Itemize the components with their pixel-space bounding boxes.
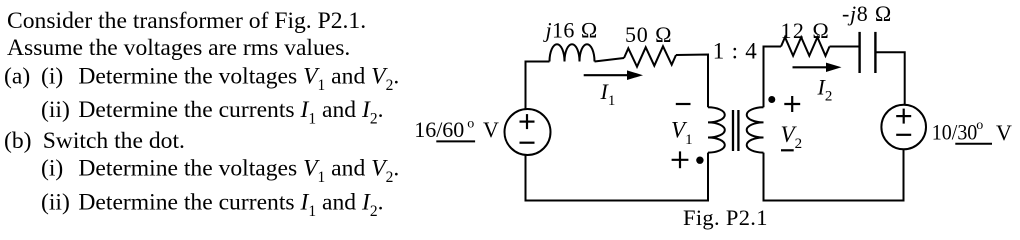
svg-text:-j8 Ω: -j8 Ω <box>842 1 892 26</box>
voltage source right 10/30 <box>881 105 926 150</box>
svg-text:j16 Ω: j16 Ω <box>543 18 598 43</box>
svg-text:(i): (i) <box>41 156 63 182</box>
arrow I2 <box>793 63 842 72</box>
svg-text:(ii): (ii) <box>41 97 70 123</box>
svg-text:V: V <box>996 120 1012 145</box>
svg-text:Consider the transformer of Fi: Consider the transformer of Fig. P2.1. <box>7 8 366 34</box>
wire secondary top to resistor 12 <box>764 47 782 108</box>
svg-text:50 Ω: 50 Ω <box>625 22 672 47</box>
label 10/30 V <box>932 118 1012 145</box>
capacitor -j8 ohm <box>860 32 876 73</box>
dot secondary top <box>768 96 775 103</box>
problem statement text line 7 <box>41 189 383 220</box>
label plus above V2 <box>784 96 800 112</box>
inductor j16 ohm <box>550 44 595 61</box>
problem statement text line 4 <box>41 97 383 128</box>
label minus below V2 <box>781 149 794 151</box>
wire left loop bottom <box>526 153 709 201</box>
svg-text:Determine the currents I1 and: Determine the currents I1 and I2. <box>78 189 383 220</box>
svg-text:Fig. P2.1: Fig. P2.1 <box>683 205 768 230</box>
svg-text:(i): (i) <box>41 64 63 90</box>
svg-text:(ii): (ii) <box>41 189 70 215</box>
svg-text:Determine the voltages V1 and: Determine the voltages V1 and V2. <box>78 64 399 95</box>
svg-text:V: V <box>483 117 499 142</box>
wire capacitor to right source <box>875 52 904 105</box>
wire inductor to resistor 50 <box>595 58 625 62</box>
svg-text:(b): (b) <box>4 128 32 154</box>
resistor 12 ohm <box>781 37 830 56</box>
svg-text:10/30: 10/30 <box>932 120 978 145</box>
problem statement text line 3 <box>4 64 399 95</box>
voltage source left 16/60 <box>505 109 551 155</box>
label minus above V1 <box>676 103 691 105</box>
wire resistor 50 to transformer primary <box>676 55 708 108</box>
resistor 50 ohm <box>624 46 676 66</box>
svg-text:1 : 4: 1 : 4 <box>713 38 758 63</box>
problem statement text line 5 <box>4 128 185 154</box>
svg-text:o: o <box>467 117 474 132</box>
wire top-left corner to inductor <box>526 62 550 110</box>
label plus below V1 <box>672 151 689 168</box>
svg-text:Determine the voltages V1 and: Determine the voltages V1 and V2. <box>78 156 399 187</box>
svg-text:o: o <box>976 118 983 133</box>
label 16/60 V <box>414 117 499 143</box>
problem statement text line 6 <box>41 156 399 187</box>
svg-text:12 Ω: 12 Ω <box>781 18 830 43</box>
svg-text:Determine the currents I1 and: Determine the currents I1 and I2. <box>78 97 383 128</box>
transformer core <box>733 110 738 151</box>
svg-text:Switch the dot.: Switch the dot. <box>43 128 185 154</box>
dot primary bottom <box>696 157 703 164</box>
svg-text:16/60: 16/60 <box>414 117 464 142</box>
transformer secondary winding <box>747 107 764 152</box>
transformer primary winding <box>708 107 725 152</box>
arrow I1 <box>584 70 643 80</box>
wire right loop bottom <box>764 149 904 200</box>
wire resistor 12 to capacitor <box>830 46 860 48</box>
svg-text:Assume the voltages are rms va: Assume the voltages are rms values. <box>7 35 350 61</box>
svg-text:(a): (a) <box>4 64 30 90</box>
